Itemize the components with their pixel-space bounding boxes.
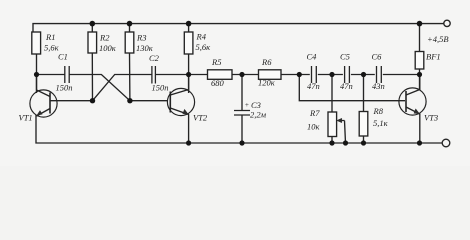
svg-text:VT2: VT2 — [193, 113, 208, 123]
svg-text:5,6к: 5,6к — [196, 42, 212, 52]
svg-text:2,2м: 2,2м — [250, 110, 267, 120]
svg-text:+4,5В: +4,5В — [427, 34, 449, 44]
svg-text:C6: C6 — [372, 52, 383, 62]
svg-text:47п: 47п — [307, 81, 320, 91]
svg-text:C1: C1 — [58, 52, 68, 62]
svg-text:130к: 130к — [136, 43, 154, 53]
svg-text:150п: 150п — [152, 83, 169, 93]
svg-text:C5: C5 — [340, 52, 350, 62]
svg-text:100к: 100к — [99, 43, 117, 53]
svg-text:R6: R6 — [261, 57, 272, 67]
svg-text:43п: 43п — [372, 81, 385, 91]
svg-text:10к: 10к — [307, 122, 321, 132]
svg-text:680: 680 — [211, 78, 225, 88]
svg-text:VT1: VT1 — [19, 113, 33, 123]
svg-text:R2: R2 — [99, 33, 110, 43]
svg-text:150п: 150п — [56, 83, 73, 93]
svg-text:R3: R3 — [136, 33, 146, 43]
svg-text:R8: R8 — [373, 106, 384, 116]
svg-text:47п: 47п — [340, 81, 353, 91]
svg-text:120к: 120к — [258, 78, 276, 88]
svg-text:R7: R7 — [309, 108, 320, 118]
svg-text:5,1к: 5,1к — [373, 118, 389, 128]
svg-text:VT3: VT3 — [424, 113, 438, 123]
svg-text:C2: C2 — [149, 53, 160, 63]
svg-text:C4: C4 — [307, 52, 318, 62]
svg-text:R4: R4 — [196, 32, 207, 42]
svg-text:R1: R1 — [45, 32, 55, 42]
svg-text:C3: C3 — [251, 100, 261, 110]
svg-text:R5: R5 — [211, 57, 221, 67]
svg-text:BF1: BF1 — [426, 52, 441, 62]
svg-text:+: + — [245, 101, 250, 109]
